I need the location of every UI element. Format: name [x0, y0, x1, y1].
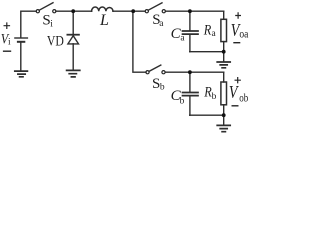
svg-text:oa: oa — [239, 29, 248, 41]
capacitor Cb bottom lead — [189, 97, 191, 116]
ground b stub — [223, 115, 225, 124]
ground a bars — [217, 62, 230, 68]
wire top-left rail — [21, 11, 36, 37]
resistor Rb box — [221, 82, 227, 105]
switch Sa contacts — [145, 10, 148, 13]
diode VD cathode bar — [67, 34, 79, 36]
plus Voa — [235, 12, 241, 18]
switch Sb contacts — [146, 71, 149, 74]
svg-text:ob: ob — [239, 92, 248, 104]
wire a bottom rail — [190, 51, 224, 53]
junction node B — [131, 9, 135, 13]
ground a stub — [223, 52, 225, 62]
inductor L — [92, 7, 113, 11]
wire node B down to b rail — [133, 11, 146, 72]
plus Vob — [235, 77, 241, 83]
svg-text:a: a — [212, 29, 217, 39]
junction node Cb — [188, 70, 192, 74]
svg-text:a: a — [159, 19, 164, 29]
switch Si blade — [39, 3, 53, 11]
svg-text:V: V — [229, 82, 239, 102]
capacitor Ca plates — [183, 31, 199, 34]
svg-text:VD: VD — [47, 34, 64, 50]
wire down to Rb — [223, 72, 225, 82]
capacitor Cb top lead — [189, 72, 191, 92]
svg-text:b: b — [212, 92, 217, 102]
junction diode node — [71, 9, 75, 13]
svg-text:b: b — [160, 82, 165, 92]
wire down to Ra — [223, 11, 225, 19]
ground VD bars — [67, 70, 80, 77]
minus Voa — [233, 42, 240, 44]
svg-text:i: i — [50, 20, 53, 30]
battery Vi plates — [15, 37, 28, 39]
wire L to node B — [113, 10, 145, 12]
switch Sb blade — [149, 65, 161, 71]
switch Sa blade — [148, 3, 162, 10]
svg-text:R: R — [203, 85, 211, 101]
plus Vi — [4, 22, 11, 29]
wire Ra to node a-bot — [223, 42, 225, 52]
ground Vi bars — [15, 71, 28, 77]
svg-text:a: a — [180, 34, 185, 44]
minus Vob — [232, 105, 239, 107]
wire Si to diode node — [56, 10, 92, 12]
minus Vi — [3, 50, 11, 52]
ground b bars — [217, 125, 230, 131]
switch Si contacts — [36, 10, 39, 13]
svg-text:i: i — [8, 37, 11, 47]
diode VD top lead — [72, 11, 74, 34]
wire Sb to Rb corner — [165, 71, 224, 73]
wire Rb to node b-bot — [223, 105, 225, 115]
capacitor Cb plates — [183, 93, 199, 96]
junction node a-bot — [222, 50, 226, 54]
diode VD bottom lead — [72, 44, 74, 70]
capacitor Ca top lead — [189, 11, 191, 30]
diode VD triangle — [68, 36, 79, 44]
svg-text:R: R — [203, 23, 211, 39]
battery Vi bottom lead — [20, 43, 22, 70]
wire Sa to node Ca — [166, 10, 224, 12]
junction node Ca — [188, 9, 192, 13]
svg-text:b: b — [180, 96, 185, 106]
wire b bottom rail — [190, 114, 224, 116]
capacitor Ca bottom lead — [189, 35, 191, 52]
resistor Ra box — [221, 19, 227, 41]
junction node b-bot — [222, 113, 226, 117]
svg-text:L: L — [99, 12, 109, 29]
